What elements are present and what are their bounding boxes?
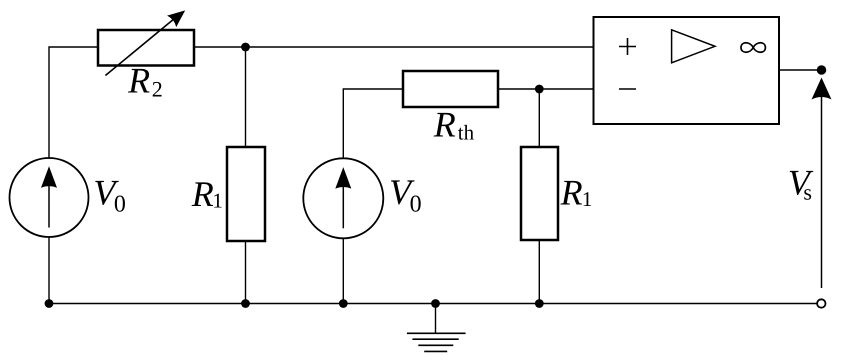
wire V0 middle to bottom rail bbox=[342, 238, 344, 303]
svg-text:1: 1 bbox=[582, 187, 593, 211]
svg-text:th: th bbox=[458, 120, 475, 144]
node junction Rth/R1 bbox=[535, 85, 544, 94]
node junction ground bbox=[431, 299, 440, 308]
wire V0 left to bottom rail bbox=[48, 237, 50, 304]
ground bbox=[407, 304, 466, 352]
wire R1 right to bottom rail bbox=[538, 240, 540, 304]
svg-text:R: R bbox=[433, 104, 456, 144]
svg-text:1: 1 bbox=[212, 189, 223, 213]
wire R1 left to bottom rail bbox=[245, 241, 247, 304]
source V0 left (circle) bbox=[10, 158, 89, 237]
node junction bottom R1 left bbox=[241, 299, 250, 308]
resistor R1 (right) body bbox=[521, 147, 558, 240]
svg-text:2: 2 bbox=[152, 76, 163, 101]
wire left branch top corner bbox=[49, 47, 98, 159]
wire op-amp output bbox=[779, 69, 817, 71]
op-amp infinity gain symbol bbox=[741, 43, 765, 52]
node junction top (R2/R1) bbox=[241, 43, 250, 52]
label V0 left bbox=[93, 173, 126, 218]
label R1 left bbox=[191, 174, 223, 214]
resistor R2 (variable) body bbox=[98, 30, 194, 66]
svg-text:R: R bbox=[127, 60, 150, 100]
node junction bottom R1 right bbox=[535, 299, 544, 308]
label V0 middle bbox=[389, 172, 422, 218]
op-amp U1 body bbox=[594, 17, 780, 124]
label R1 right bbox=[560, 173, 593, 213]
op-amp triangle symbol bbox=[672, 30, 715, 63]
op-amp plus input sign bbox=[619, 38, 636, 55]
svg-text:0: 0 bbox=[114, 192, 126, 218]
resistor R2 variable arrow bbox=[105, 10, 185, 75]
label Rth bbox=[433, 104, 475, 144]
svg-text:0: 0 bbox=[410, 192, 422, 218]
op-amp minus input sign bbox=[619, 88, 636, 90]
wire bottom rail bbox=[49, 303, 817, 305]
node output terminal (open) bbox=[817, 299, 825, 307]
wire Rth to op-amp minus input bbox=[498, 88, 594, 90]
node output dot bbox=[817, 65, 827, 75]
wire R2 to op-amp plus input bbox=[194, 46, 594, 48]
wire junction down to R1 right bbox=[538, 89, 540, 147]
wire junction down to R1 bbox=[245, 47, 247, 147]
resistor Rth body bbox=[403, 71, 498, 107]
source V0 middle (circle) bbox=[303, 158, 383, 238]
wire middle corner to Rth and V0 bbox=[343, 89, 403, 159]
label R2 bbox=[127, 60, 163, 101]
svg-text:R: R bbox=[560, 173, 583, 213]
resistor R1 (left) body bbox=[227, 147, 265, 241]
node junction bottom middle bbox=[339, 299, 348, 308]
svg-text:R: R bbox=[191, 174, 214, 214]
arrow Vs (output voltage) bbox=[812, 78, 832, 289]
node junction bottom left bbox=[45, 299, 54, 308]
label Vs bbox=[788, 163, 814, 205]
svg-text:s: s bbox=[803, 180, 812, 205]
